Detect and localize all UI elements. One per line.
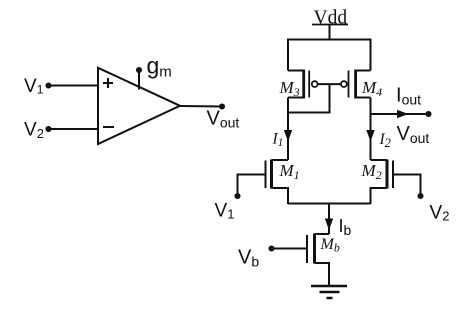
wire Vdd underline <box>312 24 348 26</box>
arrow current Iout <box>398 111 408 118</box>
svg-text:M3: M3 <box>279 78 300 99</box>
wire common source rail <box>288 203 371 205</box>
wire Iout output <box>371 113 429 115</box>
svg-text:V2: V2 <box>24 120 44 142</box>
wire gm to op-amp top edge <box>138 70 140 90</box>
node Vout (right circuit output terminal) <box>425 111 431 117</box>
wire V2 to op-amp <box>49 128 99 130</box>
op-amp plus input marking <box>103 78 113 88</box>
wire M4 drain to M2 drain <box>370 98 372 161</box>
wire gate interconnect M3-M4 <box>318 83 341 85</box>
svg-text:Mb: Mb <box>320 236 340 255</box>
svg-text:V1: V1 <box>215 201 235 222</box>
transistor M4 (PMOS) <box>341 70 371 99</box>
node gm terminal <box>136 67 142 73</box>
svg-text:Vout: Vout <box>207 108 240 131</box>
svg-text:Iout: Iout <box>396 85 421 108</box>
transistor M3 (PMOS) <box>288 70 318 99</box>
wire diode connection gate to M3 drain <box>288 84 330 112</box>
transistor M1 (NMOS) <box>266 160 289 205</box>
node Vb terminal <box>268 245 274 251</box>
node Vout (op-amp output terminal) <box>219 103 225 109</box>
wire op-amp output <box>180 105 222 108</box>
svg-text:M4: M4 <box>361 78 382 99</box>
wire V1 to op-amp <box>49 85 99 87</box>
wire tail current down to Mb <box>328 204 330 235</box>
svg-text:Ib: Ib <box>339 216 352 238</box>
wire Mb gate to Vb <box>273 248 307 250</box>
wire Vdd top rail <box>288 40 371 71</box>
op-amp U1 triangle <box>98 68 180 144</box>
node V2 (right circuit terminal) <box>417 193 423 199</box>
transistor M2 (NMOS) <box>371 160 394 205</box>
op-amp minus input marking <box>103 126 114 128</box>
ground <box>311 286 347 298</box>
node V2 (op-amp input terminal) <box>45 126 51 132</box>
svg-text:V2: V2 <box>430 203 450 224</box>
svg-text:Vb: Vb <box>238 247 259 270</box>
wire M1 gate to V1 <box>238 175 266 194</box>
wire M3 drain to M1 drain <box>287 98 289 161</box>
arrow current I2 <box>367 131 374 141</box>
svg-text:M2: M2 <box>361 161 382 182</box>
power Vdd wire stub <box>329 25 331 40</box>
svg-text:I2: I2 <box>379 131 391 150</box>
svg-text:V1: V1 <box>24 76 44 97</box>
svg-text:gm: gm <box>147 53 172 81</box>
transistor Mb (NMOS) <box>307 234 329 287</box>
svg-text:M1: M1 <box>279 161 300 182</box>
arrow current I1 <box>285 131 292 141</box>
arrow current Ib <box>326 219 333 229</box>
svg-text:I1: I1 <box>272 131 284 150</box>
node V1 (right circuit terminal) <box>234 193 240 199</box>
node V1 (op-amp input terminal) <box>45 82 51 88</box>
wire M2 gate to V2 <box>393 175 421 194</box>
svg-text:Vout: Vout <box>397 123 430 146</box>
